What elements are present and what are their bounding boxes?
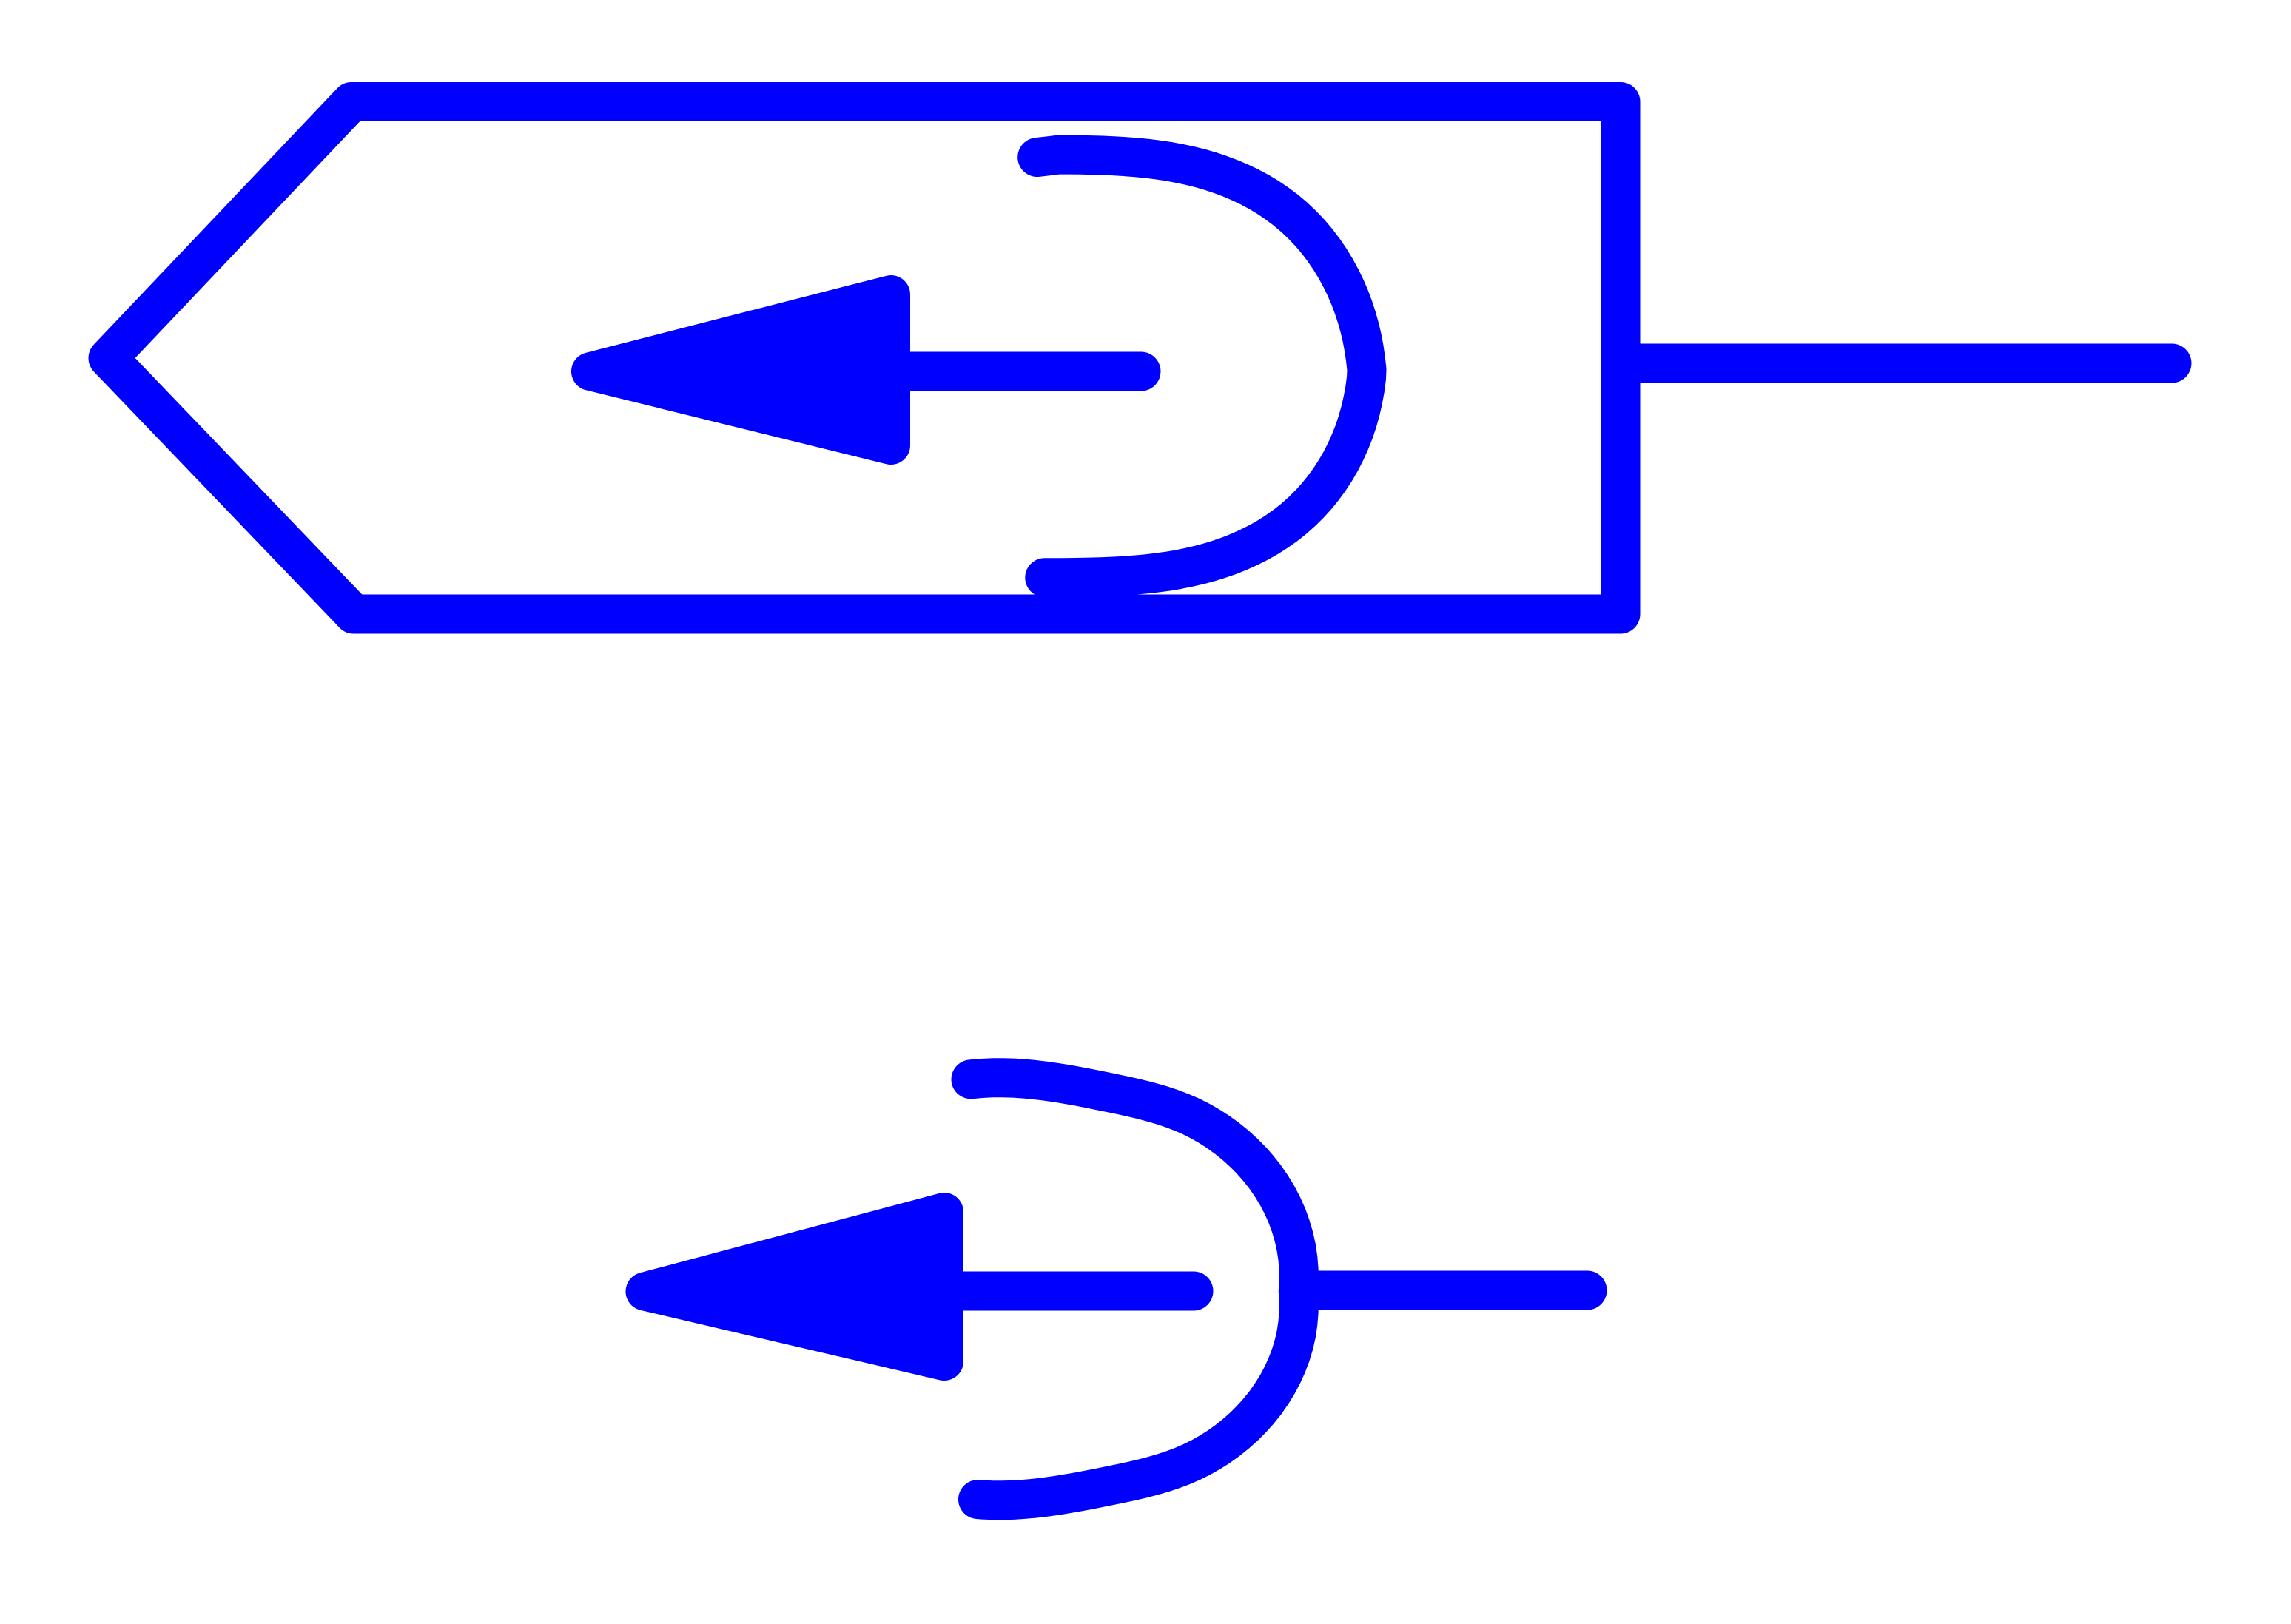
arrow head (bottom symbol)	[645, 1212, 945, 1361]
wire right of flag (top symbol)	[1621, 344, 2172, 383]
arrow tail wire (top symbol)	[907, 352, 1141, 391]
arrow tail wire (bottom symbol)	[955, 1272, 1194, 1311]
net label flag outline (top symbol pentagon)	[108, 102, 1621, 615]
wire right of hook (bottom symbol)	[1306, 1271, 1587, 1310]
hook arc (top symbol)	[1037, 155, 1367, 578]
hook arc (bottom symbol)	[971, 1078, 1299, 1500]
arrow head (top symbol)	[591, 294, 891, 445]
